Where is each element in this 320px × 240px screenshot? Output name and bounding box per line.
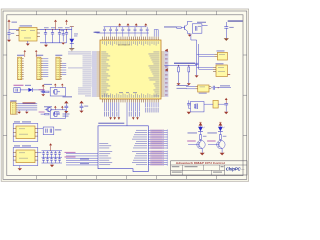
- power flag decoupling: [127, 23, 130, 25]
- pin text cluster U1 bottom center: [119, 91, 137, 94]
- wires CN2 left pins: [66, 154, 98, 165]
- oscillator X2: [198, 85, 209, 94]
- capacitor CD5: [128, 27, 131, 37]
- wire: [202, 25, 208, 27]
- label: [63, 114, 70, 115]
- LED D Q6: [218, 127, 225, 135]
- ground: [50, 163, 54, 167]
- power flag RTCVCC: [42, 84, 45, 90]
- pin stubs U1 right: [161, 52, 164, 96]
- label VIN net: [12, 22, 18, 23]
- IC U2: [217, 52, 227, 60]
- node arrow down: [113, 117, 116, 120]
- capacitor CD3: [115, 27, 118, 37]
- wire: [186, 88, 196, 90]
- regulator U9 SPX1117: [19, 28, 37, 42]
- regulator U9 caption: [20, 25, 33, 26]
- transistor Q2 cell: [50, 88, 65, 97]
- capacitor C6 box: [192, 24, 202, 33]
- wire: [41, 113, 45, 115]
- label net above Q2: [44, 84, 52, 85]
- power flag Q3 a: [54, 106, 57, 108]
- capacitor CC1: [43, 157, 45, 159]
- wire U9 gnd stem: [27, 41, 29, 44]
- label above CPU: [95, 32, 101, 33]
- svg-text:ChipPC: ChipPC: [226, 166, 242, 171]
- pin stubs CN5: [16, 104, 18, 114]
- wire: [191, 33, 197, 75]
- wire: [197, 53, 215, 55]
- wires top right risers: [154, 30, 158, 37]
- label: [55, 129, 62, 130]
- ground: [18, 166, 22, 171]
- title block small text: [172, 166, 224, 172]
- resistor R Q6: [219, 135, 226, 141]
- pin numbers U1 right: [165, 51, 168, 96]
- resistor R Q5: [200, 135, 207, 141]
- capacitor CC2: [47, 157, 49, 159]
- crystal X2 caption: [177, 85, 189, 89]
- pin stubs U9 left: [16, 31, 19, 36]
- pin stubs CN7: [41, 59, 43, 79]
- net label boxes CN2 right: [151, 130, 164, 166]
- capacitor CD2: [109, 27, 112, 37]
- battery BT1: [14, 88, 20, 93]
- capacitor CD6: [134, 27, 137, 37]
- node arrow down: [136, 117, 139, 120]
- capacitor CB3: [51, 151, 53, 153]
- capacitor bank bottom bus: [42, 162, 63, 164]
- pin names CN2 right column: [132, 130, 147, 165]
- wire: [197, 66, 213, 68]
- resistor R Q2: [45, 91, 49, 93]
- ground: [220, 153, 225, 156]
- ground: [64, 111, 68, 113]
- pin stubs X2: [196, 87, 212, 89]
- pin stubs K2 right: [35, 153, 38, 161]
- capacitor bank top bus: [42, 150, 63, 152]
- zone tick marks bottom: [37, 176, 217, 180]
- resistor R3: [55, 112, 59, 114]
- power flag VCC: [65, 20, 68, 25]
- capacitor CB5: [59, 151, 61, 153]
- pin stubs K2 left: [13, 153, 16, 161]
- outer border frame: [3, 11, 247, 179]
- label: [63, 116, 69, 117]
- capacitor C5: [65, 27, 70, 43]
- transistor Q3 cell: [50, 110, 65, 119]
- power flag decoupling: [118, 23, 121, 25]
- wire: [181, 27, 184, 29]
- pin stubs U1 left: [97, 52, 100, 96]
- resistor R2: [177, 27, 181, 29]
- wire: [204, 103, 213, 105]
- capacitor C4: [58, 27, 63, 43]
- wire: [33, 89, 43, 91]
- pin stubs CN6: [22, 59, 24, 79]
- wire: [38, 152, 42, 154]
- wire: [221, 149, 223, 153]
- relay K1 cell outline: [13, 124, 38, 142]
- ground: [200, 153, 205, 156]
- power flag VIN: [8, 20, 11, 30]
- connector CN2 SODIMM outline: [98, 126, 148, 172]
- label LED net: [188, 132, 198, 133]
- pin stubs CN8: [60, 59, 62, 79]
- wires CN2 right pins: [148, 130, 167, 166]
- capacitor C9: [195, 62, 198, 65]
- label: [197, 22, 206, 23]
- ground: [177, 83, 181, 85]
- wire: [225, 22, 227, 27]
- capacitor CD1: [103, 27, 106, 37]
- svg-text:.com: .com: [241, 169, 245, 171]
- capacitor bank mid bus: [42, 156, 63, 158]
- capacitor C7: [224, 27, 233, 39]
- pin stubs U3: [213, 67, 216, 71]
- IC U3: [216, 65, 227, 77]
- connector CN2 caption: [98, 123, 124, 124]
- label LED net: [207, 132, 217, 133]
- power flag 3V3: [54, 20, 57, 30]
- resistor R Q3: [45, 113, 49, 115]
- power flag LED chain: [70, 27, 74, 39]
- resistor R4: [178, 65, 180, 83]
- connector CN7 caption: [36, 55, 43, 56]
- pin names U1 right column: [148, 52, 159, 97]
- transistor Q6: [208, 140, 225, 148]
- capacitor C12: [224, 104, 228, 112]
- label base net: [207, 140, 216, 141]
- wire: [199, 55, 215, 57]
- power flag Q2 b: [61, 84, 64, 86]
- wire decoupling bus upper: [104, 26, 147, 28]
- svg-text:Advantech DM&P CPU Control: Advantech DM&P CPU Control: [176, 161, 225, 165]
- net labels U1 left: [68, 52, 92, 97]
- label IDE LED: [23, 102, 36, 103]
- node mark U3: [228, 74, 231, 75]
- wire: [20, 89, 28, 91]
- capacitor CC3: [51, 157, 53, 159]
- zone tick marks top: [37, 11, 217, 15]
- pin names U1 top row: [102, 41, 159, 45]
- capacitor CB2: [47, 151, 49, 153]
- power flag above CN6: [24, 50, 27, 52]
- pin stubs U1 top: [102, 37, 158, 40]
- transistor Q5: [188, 140, 205, 148]
- pin names CN2 left column: [99, 143, 112, 165]
- capacitor CB4: [55, 151, 57, 153]
- ground: [69, 49, 74, 51]
- connector CN8: [56, 57, 60, 79]
- label: [94, 32, 100, 33]
- capacitor C10: [211, 86, 218, 90]
- wire: [218, 87, 231, 89]
- label: [25, 85, 31, 86]
- wire cap bottom bus: [40, 42, 67, 44]
- wires CN7 fanout: [43, 59, 48, 77]
- sheet page: [1, 9, 248, 181]
- wires U1 left fanout: [92, 52, 97, 96]
- relay K2 cell outline: [13, 148, 38, 166]
- CPU U1 Vortex86SX: [100, 40, 161, 99]
- capacitor CC5: [59, 157, 61, 159]
- wires U1 right fanout: [164, 52, 168, 96]
- ground: [224, 112, 228, 114]
- wires U1 bottom group2: [129, 102, 139, 117]
- label base net: [187, 140, 196, 141]
- ground: [224, 38, 229, 41]
- ground: [195, 75, 199, 77]
- pin stubs K1 right: [35, 129, 38, 137]
- pin stubs K1 left: [13, 129, 16, 137]
- crystal cell Y1: [38, 127, 54, 135]
- ground: [187, 83, 191, 85]
- power flag: [79, 101, 83, 104]
- label BAT1: [14, 85, 24, 86]
- ground: [61, 43, 65, 45]
- diode D2: [28, 88, 32, 92]
- power flag Q6: [219, 122, 223, 127]
- wire decoupling bus lower: [97, 32, 149, 34]
- power flag Q2 a: [54, 84, 57, 86]
- power flag above CN7: [35, 50, 38, 52]
- power flag: [49, 143, 52, 145]
- IC U2 caption: [217, 50, 225, 51]
- pin stubs U1 bottom: [102, 99, 158, 102]
- ground: [44, 43, 48, 47]
- wire U9 output bus: [40, 29, 72, 31]
- logo ChipPC: [226, 166, 245, 171]
- ground: [25, 110, 29, 114]
- capacitor: [80, 103, 84, 110]
- LED D Q5: [198, 127, 205, 135]
- title block: [171, 161, 247, 175]
- net labels CN2 left: [65, 152, 90, 164]
- capacitor C8: [42, 90, 44, 91]
- capacitor CD7: [140, 27, 143, 37]
- connector CN5: [11, 102, 16, 114]
- wire: [41, 91, 45, 93]
- battery BT2: [213, 100, 218, 108]
- pin stubs U9 right: [37, 30, 40, 37]
- LED D1: [69, 34, 78, 49]
- power flag decoupling: [135, 23, 138, 25]
- connector CN7: [37, 57, 41, 79]
- capacitor C1: [7, 30, 14, 38]
- wire: [198, 44, 200, 69]
- wire VIN to U9: [9, 29, 19, 31]
- pin names U1 left column: [101, 52, 110, 97]
- connector CN6: [18, 57, 22, 79]
- ground: [7, 38, 11, 43]
- node arrow right a: [165, 49, 168, 52]
- wire: [201, 149, 203, 153]
- capacitor CD4: [121, 27, 124, 37]
- label: [63, 96, 73, 97]
- wire: [186, 86, 196, 88]
- relay K2: [16, 150, 35, 163]
- label: [84, 106, 88, 107]
- power flag: [64, 101, 68, 104]
- wires U1 bottom group3: [146, 102, 158, 107]
- net labels group2: [129, 112, 140, 117]
- capacitor C2: [44, 27, 49, 43]
- relay K1 caption: [14, 121, 31, 122]
- power flag: [225, 98, 228, 100]
- power flag decoupling: [144, 23, 147, 25]
- capacitor C11: [188, 100, 190, 103]
- label PullUp PullDn: [174, 63, 195, 64]
- ground: [79, 111, 83, 113]
- wire: [199, 68, 213, 70]
- label CLK net: [220, 85, 230, 86]
- relay K1: [16, 126, 35, 139]
- resistor R1: [60, 30, 64, 42]
- node arrow down: [132, 117, 135, 120]
- connector CN6 caption: [17, 55, 24, 56]
- wires U1 bottom group1: [104, 102, 118, 117]
- capacitor C3: [51, 27, 56, 43]
- zone tick marks right: [243, 55, 247, 135]
- wire: [164, 64, 196, 66]
- label gate Q2: [39, 89, 45, 90]
- wires CN5 fanout: [18, 104, 37, 110]
- pin names U1 bottom row: [102, 93, 159, 97]
- capacitor CC4: [55, 157, 57, 159]
- ground: [26, 44, 30, 46]
- capacitor CD8: [146, 27, 149, 37]
- node arrow down: [109, 117, 112, 120]
- crystal cell Y2: [189, 102, 204, 112]
- relay K2 caption: [14, 145, 31, 146]
- power flag Q3 b: [61, 106, 64, 108]
- wire: [187, 20, 192, 22]
- capacitor: [64, 103, 68, 111]
- transistor Q1: [185, 21, 188, 33]
- node arrow right b: [165, 68, 168, 71]
- IC U3 caption: [216, 63, 224, 64]
- capacitor CB1: [43, 151, 45, 153]
- pin stubs U2: [214, 54, 217, 56]
- label net above Q3: [44, 106, 52, 107]
- ground: [187, 112, 191, 114]
- ground: [187, 33, 191, 36]
- zone tick marks left: [3, 55, 7, 135]
- net labels group3: [145, 108, 158, 113]
- label gate Q3: [39, 112, 45, 113]
- node arrow down: [118, 117, 121, 120]
- node junction: [218, 87, 219, 88]
- label PWRON net: [164, 26, 177, 27]
- resistor R5: [188, 65, 190, 83]
- net labels group1: [104, 112, 117, 117]
- ground: [17, 110, 21, 114]
- wire: [126, 102, 128, 125]
- connector CN8 caption: [55, 55, 62, 56]
- transistor Q4: [45, 107, 52, 112]
- power flag Q5: [199, 122, 203, 127]
- inner border frame: [7, 15, 243, 176]
- ground: [41, 94, 45, 96]
- wire: [218, 103, 224, 105]
- connector CN5 caption: [10, 100, 17, 101]
- label SB5V net: [228, 20, 243, 21]
- wires CN8 fanout: [62, 63, 66, 74]
